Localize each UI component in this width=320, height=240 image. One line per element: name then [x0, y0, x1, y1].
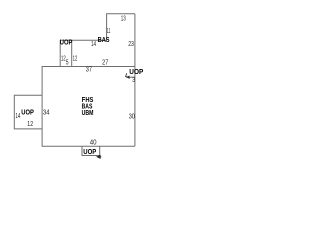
arrowhead: right porch leader [126, 76, 129, 79]
svg-text:UOP: UOP [60, 38, 73, 47]
leader: right porch dimension line [129, 76, 135, 78]
svg-text:5: 5 [66, 59, 69, 66]
wall: BAS strip top edge [60, 39, 106, 41]
svg-text:27: 27 [102, 60, 108, 67]
wall: upper UOP left side [59, 40, 61, 66]
wall: right edge full height [134, 14, 136, 147]
svg-text:14: 14 [15, 113, 20, 120]
svg-text:30: 30 [129, 114, 135, 121]
svg-text:37: 37 [86, 67, 92, 74]
wall: bottom UOP porch box [82, 146, 100, 155]
svg-text:40: 40 [90, 140, 97, 147]
wall: upper addition box (13 x 23) [107, 14, 135, 41]
svg-text:11: 11 [107, 28, 111, 35]
svg-text:BAS: BAS [98, 35, 110, 44]
svg-text:12: 12 [73, 55, 78, 62]
arrowhead: bottom porch leader [96, 155, 101, 159]
wall: main block top, left, bottom [42, 67, 135, 147]
svg-text:UOP: UOP [83, 147, 96, 156]
wall: upper UOP right side [71, 40, 73, 66]
svg-text:14: 14 [91, 41, 96, 48]
svg-text:UOP: UOP [129, 67, 143, 76]
wall: left UOP porch box [14, 95, 42, 129]
svg-text:UOP: UOP [21, 107, 34, 116]
svg-text:UBM: UBM [82, 108, 94, 117]
svg-text:12: 12 [27, 121, 33, 128]
svg-text:23: 23 [128, 41, 134, 48]
svg-text:4: 4 [125, 73, 128, 80]
leader: bottom porch stub [100, 156, 101, 158]
svg-text:3: 3 [132, 77, 135, 84]
svg-text:34: 34 [43, 110, 50, 117]
svg-text:13: 13 [121, 15, 126, 22]
